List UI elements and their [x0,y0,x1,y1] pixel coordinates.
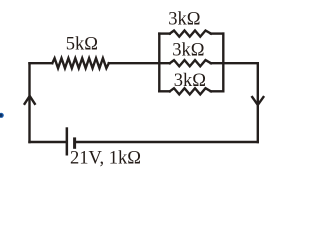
wire top segment left corner to R1 [30,62,53,64]
wire bottom branch right lead [211,90,223,92]
resistor R3 3kOhm middle zigzag [170,60,211,66]
svg-text:3kΩ: 3kΩ [174,71,206,91]
wire bottom right segment battery to right corner [76,141,258,143]
parallel box right rail [222,34,224,92]
svg-text:3kΩ: 3kΩ [168,10,200,30]
svg-text:5kΩ: 5kΩ [66,34,98,54]
wire top branch left lead [159,32,170,34]
arrow current up on left wire [25,96,35,104]
svg-text:21V, 1kΩ: 21V, 1kΩ [70,148,141,168]
parallel box left rail [158,34,160,92]
arrow current down on right wire [252,97,263,105]
wire top branch right lead [211,32,223,34]
wire top segment R1 to parallel box [109,62,170,64]
wire left vertical [28,63,30,142]
wire bottom branch left lead [159,90,170,92]
wire top segment parallel box to right corner [211,62,258,64]
wire right vertical [257,63,259,142]
svg-text:3kΩ: 3kΩ [172,40,204,60]
resistor R1 5kOhm zigzag [52,58,109,68]
resistor R4 3kOhm bottom zigzag [170,88,211,94]
decorative blue bullet at left edge [0,113,4,118]
battery V1 long plate (positive) [66,127,69,155]
battery V1 short plate (negative) [73,137,76,148]
wire bottom left segment left corner to battery [30,141,66,143]
resistor R2 3kOhm top zigzag [170,31,211,37]
